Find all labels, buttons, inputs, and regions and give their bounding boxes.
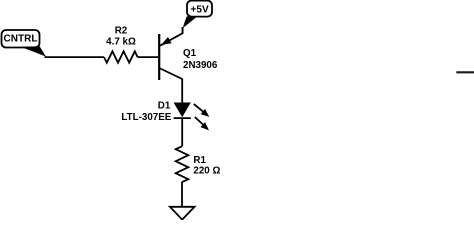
svg-text:Q1: Q1 xyxy=(183,48,197,59)
svg-text:+5V: +5V xyxy=(191,5,209,16)
svg-text:D1: D1 xyxy=(158,100,171,111)
flag CNTRL xyxy=(2,30,47,57)
transistor Q1 xyxy=(159,27,182,80)
wire R2 to Q1 base xyxy=(138,56,159,58)
wire CNTRL to R2 xyxy=(45,56,105,58)
svg-text:4.7 kΩ: 4.7 kΩ xyxy=(106,36,136,47)
label R1 220 Ohm xyxy=(193,155,220,176)
wire Q1 collector to D1 xyxy=(181,79,183,103)
wire D1 to R1 xyxy=(181,118,183,146)
ground xyxy=(170,207,195,220)
resistor R2 xyxy=(104,51,138,62)
svg-text:R1: R1 xyxy=(193,155,206,166)
label D1 LTL-307EE xyxy=(121,100,171,123)
svg-text:R2: R2 xyxy=(115,25,128,36)
svg-text:2N3906: 2N3906 xyxy=(183,60,218,71)
wire +5V to Q1 emitter xyxy=(182,27,184,33)
LED D1 xyxy=(174,103,210,131)
wire R1 to ground xyxy=(181,182,183,207)
svg-text:220 Ω: 220 Ω xyxy=(193,165,220,176)
svg-text:LTL-307EE: LTL-307EE xyxy=(121,112,171,123)
label R2 4.7 kOhm xyxy=(106,25,136,47)
label Q1 2N3906 xyxy=(183,48,218,71)
svg-text:CNTRL: CNTRL xyxy=(4,33,38,44)
flag +5V xyxy=(183,1,212,29)
wire segment at right edge xyxy=(456,71,474,73)
resistor R1 xyxy=(176,146,189,182)
